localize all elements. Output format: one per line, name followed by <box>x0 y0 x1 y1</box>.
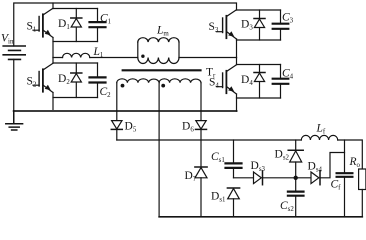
svg-text:Ro: Ro <box>349 156 361 169</box>
wire Cs1 node to Ds3 <box>234 177 254 179</box>
capacitor Cf <box>337 140 353 217</box>
capacitor Cs1 <box>226 140 242 178</box>
diode D2 <box>71 63 82 98</box>
svg-text:Lm: Lm <box>156 25 169 38</box>
inductor L1 <box>63 53 90 57</box>
wire S3 cell bottom <box>237 39 281 41</box>
wire S4 emitter to rail <box>236 94 238 111</box>
svg-text:D3: D3 <box>241 19 253 32</box>
svg-text:Cf: Cf <box>331 179 342 192</box>
wire node A horizontal <box>53 57 237 59</box>
wire secondary center tap <box>158 83 160 217</box>
wire rectifier cathode rail <box>117 140 362 169</box>
transformer Tr secondary right winding <box>159 79 201 88</box>
svg-text:Vin: Vin <box>1 33 14 46</box>
battery Vin <box>3 46 25 59</box>
IGBT S4 <box>217 65 237 94</box>
wire S2 cell bottom <box>53 97 98 99</box>
wire S2 cell top <box>53 62 98 64</box>
IGBT S2 <box>33 63 53 92</box>
diode Ds4 <box>311 171 320 185</box>
wire bottom rail <box>14 110 237 112</box>
svg-text:Cs2: Cs2 <box>280 200 294 213</box>
wire Ds4 cathode up to output node <box>320 153 345 178</box>
svg-text:S3: S3 <box>209 21 219 34</box>
wire battery bottom lead <box>13 59 15 111</box>
diode D6 <box>196 121 207 140</box>
wire S1 cell top <box>53 8 98 10</box>
wire S1 cell bottom <box>53 41 98 43</box>
diode Ds3 <box>254 171 263 185</box>
transformer Tr secondary left winding <box>117 79 159 88</box>
svg-text:C4: C4 <box>282 67 294 80</box>
svg-text:Ds2: Ds2 <box>275 149 290 162</box>
svg-text:L1: L1 <box>93 46 104 59</box>
node junction dot <box>294 176 298 180</box>
wire S1 emitter to node A <box>52 38 54 58</box>
ground <box>6 111 23 130</box>
capacitor C2 <box>90 63 106 98</box>
diode D7 <box>195 140 207 217</box>
wire top rail <box>14 3 237 46</box>
diode D5 <box>111 121 122 140</box>
diode D4 <box>254 65 265 99</box>
wire node to Ds4 <box>296 177 311 179</box>
svg-text:S4: S4 <box>209 77 219 90</box>
svg-text:Cs1: Cs1 <box>211 151 225 164</box>
wire S3 emitter to node B <box>236 39 238 58</box>
transformer Tr core <box>123 69 201 71</box>
svg-text:Lf: Lf <box>316 122 326 135</box>
capacitor C3 <box>273 10 289 40</box>
svg-text:S2: S2 <box>27 76 37 89</box>
wire S2 emitter to rail <box>52 93 54 112</box>
wire secondary right lead <box>200 83 202 121</box>
inductor Lf <box>301 135 337 140</box>
wire secondary left lead <box>116 83 118 121</box>
wire S2 collector drop <box>52 58 54 64</box>
capacitor Cs2 <box>288 178 304 217</box>
svg-text:C1: C1 <box>100 12 112 25</box>
capacitor C4 <box>273 65 289 99</box>
diode Ds2 <box>288 140 303 178</box>
IGBT S3 <box>217 10 237 39</box>
svg-text:D5: D5 <box>125 121 137 134</box>
svg-text:D2: D2 <box>58 73 70 86</box>
svg-text:C3: C3 <box>282 12 294 25</box>
svg-text:S1: S1 <box>27 21 37 34</box>
wire Ds3 to node <box>263 177 296 179</box>
diode D1 <box>71 9 82 42</box>
svg-text:C2: C2 <box>100 86 112 99</box>
wire S1 collector drop <box>52 3 54 9</box>
wire S3 cell top <box>237 9 281 11</box>
svg-text:D6: D6 <box>182 121 194 134</box>
svg-text:D7: D7 <box>185 170 197 183</box>
svg-text:D4: D4 <box>241 74 253 87</box>
resistor Ro <box>359 169 366 190</box>
IGBT S1 <box>33 8 53 37</box>
wire S4 cell top <box>237 64 281 66</box>
diode D3 <box>254 10 265 40</box>
wire S4 collector drop <box>236 58 238 65</box>
diode Ds1 <box>227 188 239 217</box>
inductor Lm <box>138 38 179 64</box>
wire S4 cell bottom <box>237 97 281 99</box>
svg-text:Ds4: Ds4 <box>308 161 323 174</box>
wire output bottom <box>159 216 362 218</box>
svg-text:Ds3: Ds3 <box>251 160 266 173</box>
capacitor C1 <box>90 9 106 42</box>
wire Ro bottom lead <box>361 190 363 217</box>
svg-text:D1: D1 <box>58 18 70 31</box>
svg-text:Ds1: Ds1 <box>211 191 226 204</box>
